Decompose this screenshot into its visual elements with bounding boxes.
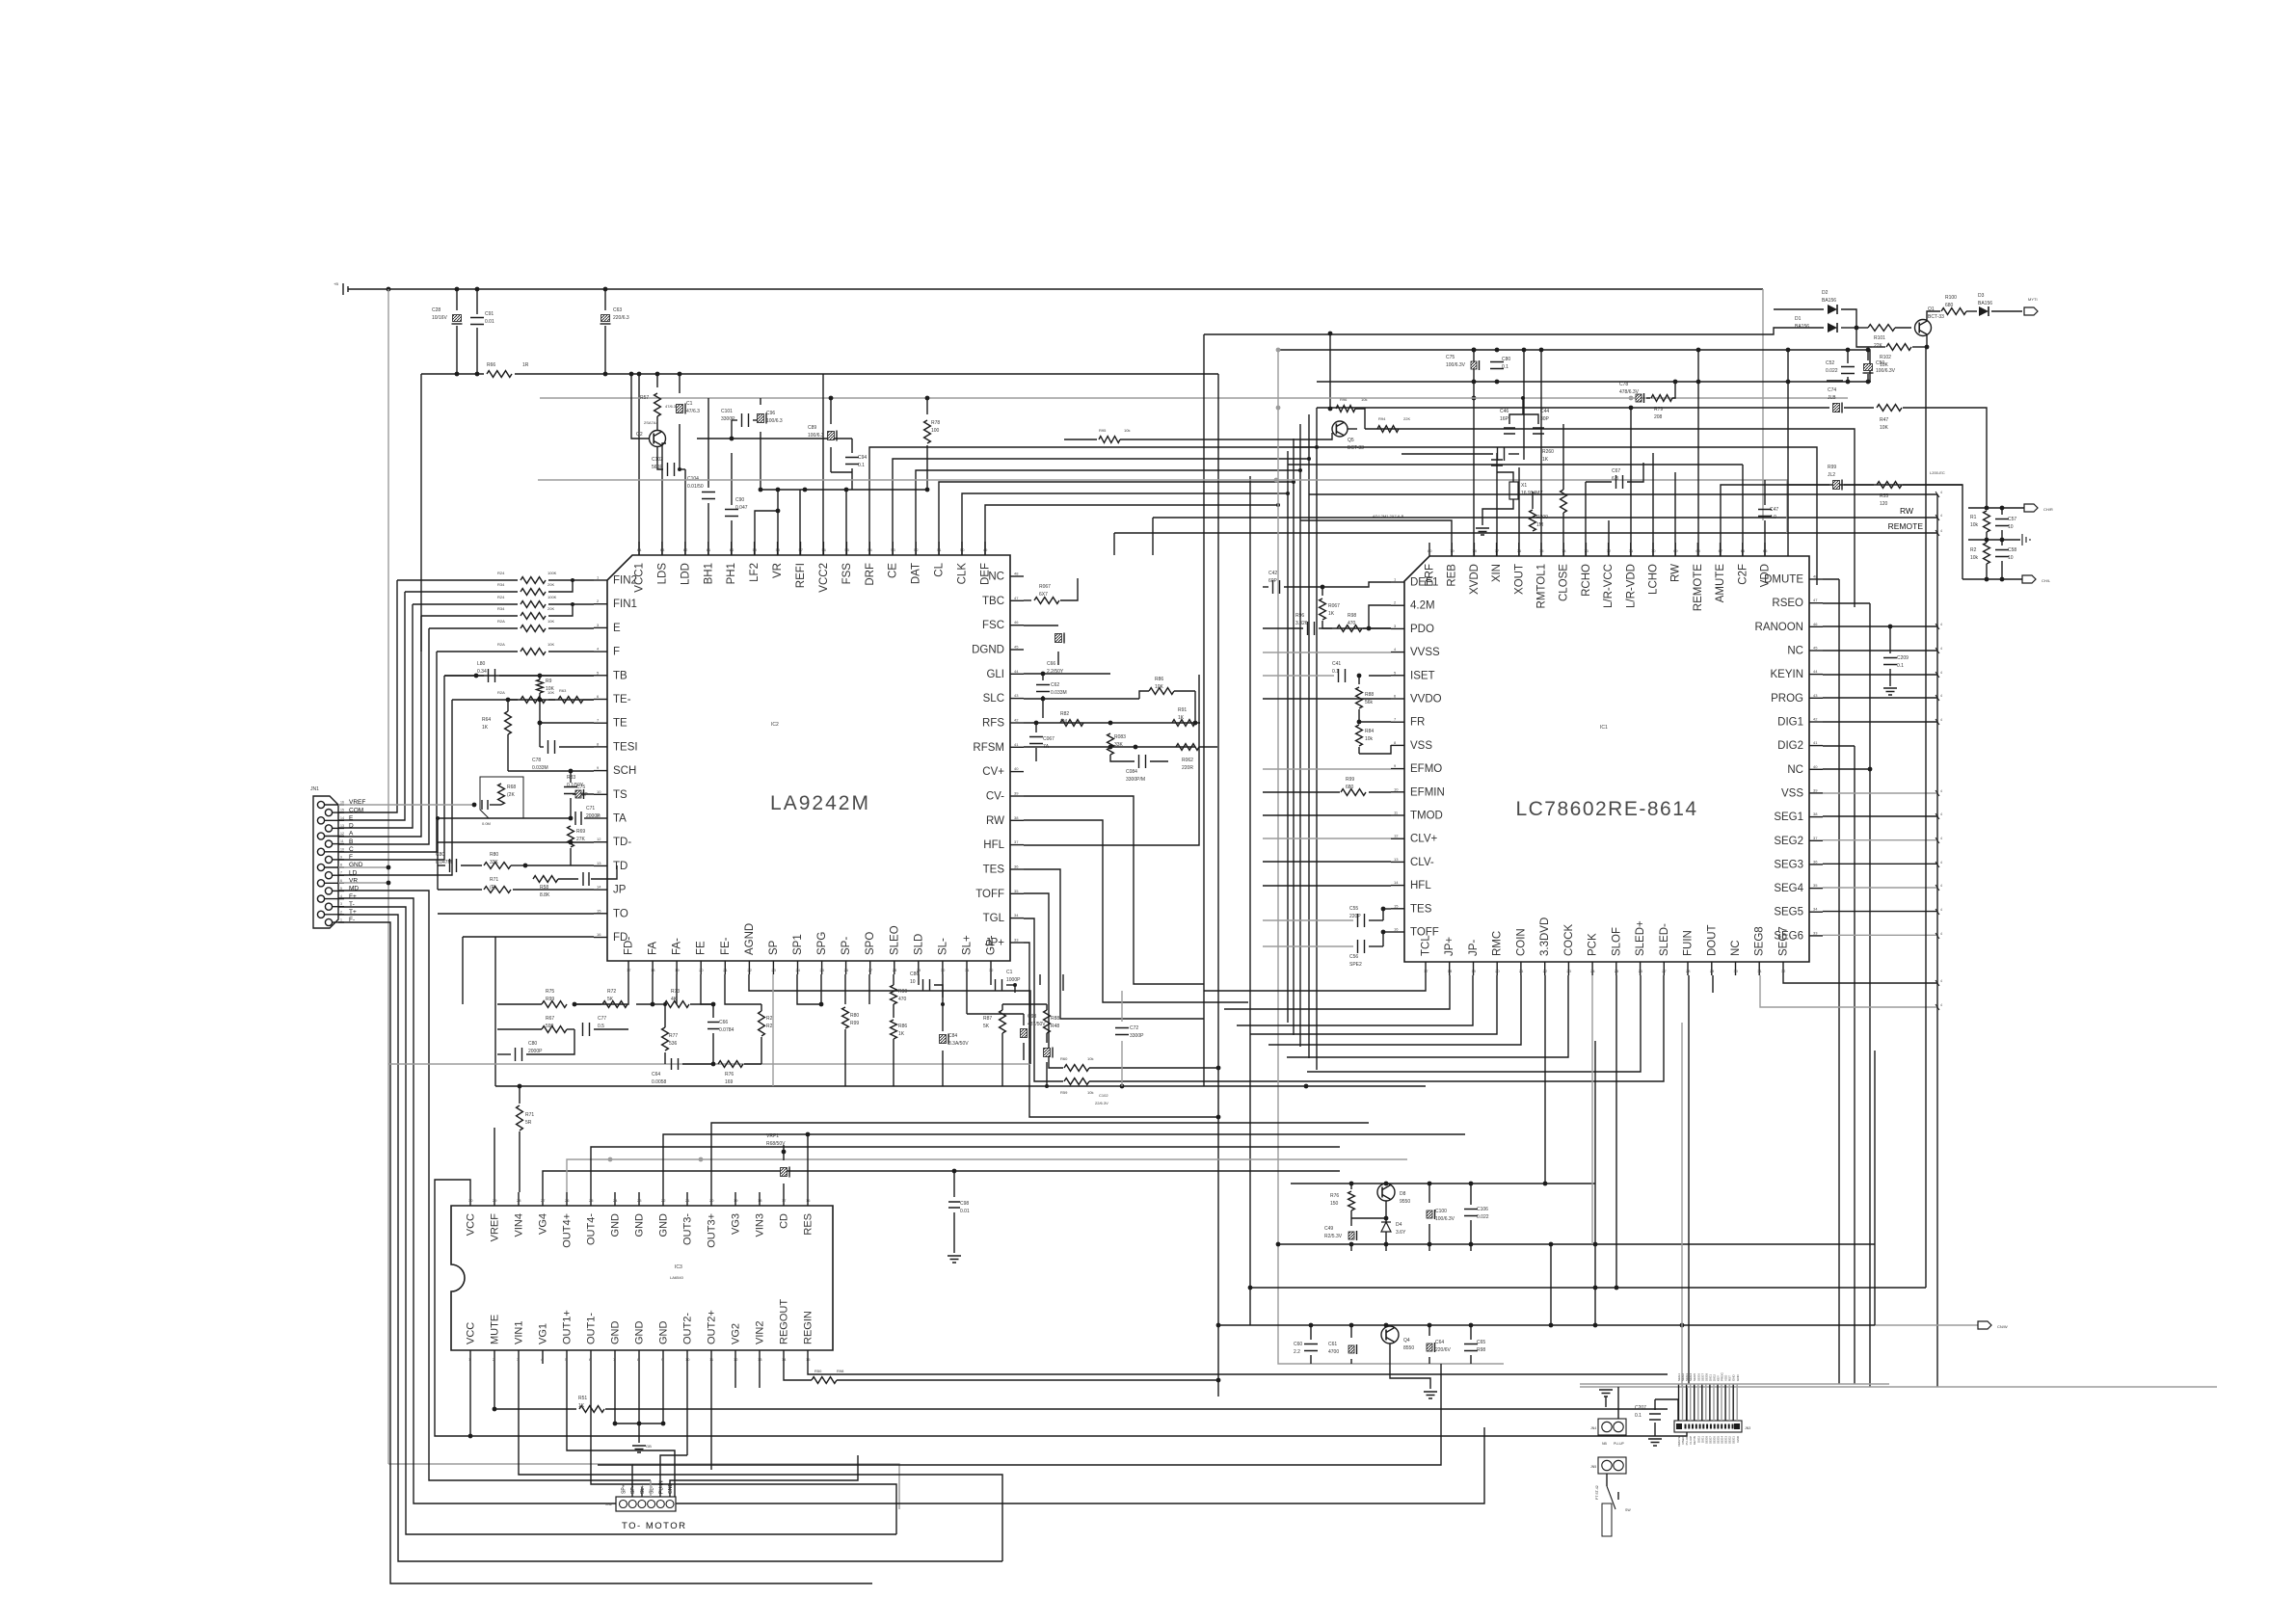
svg-text:LDD: LDD <box>680 563 691 585</box>
wire <box>444 675 594 677</box>
resistor R-tes <box>1064 1065 1089 1072</box>
resistor R73 <box>664 1001 689 1008</box>
wire RFSM <box>1024 746 1195 748</box>
svg-text:RW: RW <box>986 815 1004 827</box>
svg-text:BCT-33: BCT-33 <box>1928 314 1944 320</box>
svg-text:R200: R200 <box>1536 515 1548 520</box>
svg-text:0.01: 0.01 <box>960 1209 970 1214</box>
wire reg rail2 <box>1278 1243 1875 1245</box>
svg-text:40: 40 <box>1014 766 1019 771</box>
svg-text:32: 32 <box>1781 969 1786 973</box>
svg-text:21: 21 <box>723 968 728 972</box>
svg-text:JN1: JN1 <box>310 786 319 792</box>
svg-text:C98: C98 <box>960 1201 969 1207</box>
wire VCC1 up <box>638 374 640 555</box>
wire bus staircase <box>869 447 1317 555</box>
svg-text:BH1: BH1 <box>703 563 714 584</box>
svg-text:OUT1-: OUT1- <box>586 1313 598 1344</box>
svg-text:SL-: SL- <box>937 938 948 955</box>
wire REMOTE net <box>1114 532 1937 534</box>
svg-text:20K: 20K <box>547 606 554 611</box>
svg-text:24: 24 <box>795 968 800 972</box>
svg-text:4: 4 <box>1940 647 1942 651</box>
svg-text:R83: R83 <box>567 775 575 781</box>
svg-text:KEYIN: KEYIN <box>1770 669 1803 680</box>
wire mid bus <box>1316 408 1318 1070</box>
svg-text:18: 18 <box>1448 969 1453 973</box>
svg-text:BA156: BA156 <box>1978 301 1992 306</box>
wire RW net <box>1153 517 1937 519</box>
svg-text:RW: RW <box>1670 564 1682 582</box>
svg-text:FR: FR <box>1410 717 1425 729</box>
wire LRVCC up <box>1630 408 1632 556</box>
resistor R100 <box>1941 308 1966 315</box>
wire U3 stair 5 <box>711 1123 1369 1192</box>
wire FA down <box>636 974 653 1004</box>
junction <box>1472 396 1477 401</box>
wire hdr pin <box>1736 1384 1738 1421</box>
wire q3 row2 <box>1351 1217 1386 1219</box>
wire v1609 <box>1550 1244 1552 1325</box>
svg-text:SL+: SL+ <box>961 935 973 955</box>
svg-text:10: 10 <box>2008 524 2014 530</box>
svg-text:51: 51 <box>937 547 942 552</box>
wire <box>338 616 421 837</box>
svg-text:SLED+: SLED+ <box>1635 920 1646 956</box>
svg-text:OUT3+: OUT3+ <box>707 1213 718 1248</box>
svg-text:D8: D8 <box>1400 1191 1406 1197</box>
wire CLV- <box>1263 885 1391 887</box>
wire SCH row <box>508 770 594 772</box>
capacitor C209 <box>1889 626 1891 653</box>
wire HFL st <box>1024 869 1204 1019</box>
svg-text:GND: GND <box>1736 1374 1740 1382</box>
svg-text:R2A: R2A <box>497 642 505 647</box>
pin tick <box>1936 624 1939 629</box>
wire te- <box>539 676 541 679</box>
wire mid bus <box>1308 414 1310 1058</box>
svg-text:4: 4 <box>1940 1003 1942 1007</box>
svg-text:GND: GND <box>634 1321 646 1345</box>
svg-text:R260: R260 <box>1542 449 1554 455</box>
connector JN2 TO-MOTOR <box>605 1480 687 1531</box>
capacitor C89 electrolytic <box>830 398 832 424</box>
capacitor C-xvdd el <box>1471 361 1477 369</box>
svg-text:6.8: 6.8 <box>1612 476 1618 482</box>
capacitor C28 electrolytic <box>456 289 458 310</box>
svg-text:22K: 22K <box>1403 416 1410 421</box>
svg-text:47: 47 <box>1813 598 1818 602</box>
svg-text:TA: TA <box>613 813 627 825</box>
svg-text:33: 33 <box>1014 937 1019 942</box>
svg-text:R2A: R2A <box>497 690 505 695</box>
svg-text:10k: 10k <box>1124 428 1130 433</box>
wire SL+ down <box>1039 974 1041 985</box>
resistor R78 vert <box>926 398 928 414</box>
capacitor C50 elec <box>1864 364 1873 371</box>
junction gray <box>1274 478 1279 483</box>
svg-text:SP+: SP+ <box>622 1484 627 1494</box>
svg-text:60P: 60P <box>1268 578 1278 584</box>
svg-text:5K: 5K <box>607 997 614 1002</box>
svg-text:0.022: 0.022 <box>1826 368 1838 374</box>
svg-text:100: 100 <box>931 428 940 434</box>
svg-text:C56: C56 <box>1349 954 1358 960</box>
wire EFMIN <box>1263 814 1391 816</box>
svg-text:JN5: JN5 <box>1590 1465 1596 1469</box>
wire U3 vcc loop <box>435 1180 470 1436</box>
svg-text:R2: R2 <box>1970 547 1977 553</box>
svg-text:34: 34 <box>1014 913 1019 918</box>
svg-text:AGND: AGND <box>744 923 756 955</box>
svg-text:C58: C58 <box>2008 547 2016 553</box>
wire RSEO <box>1823 602 1870 604</box>
wire <box>338 652 437 852</box>
wire vert 1908 <box>1838 579 1840 1384</box>
svg-text:220R: 220R <box>1182 765 1193 771</box>
svg-text:10k: 10k <box>1970 555 1979 561</box>
pin tick <box>1936 672 1939 678</box>
svg-text:TBC: TBC <box>982 596 1004 607</box>
svg-text:28: 28 <box>517 1198 521 1203</box>
capacitor C-jl2 elec <box>1833 481 1840 490</box>
wire y445 band <box>1365 429 1855 607</box>
svg-text:TESI: TESI <box>613 741 638 753</box>
svg-text:FIN1: FIN1 <box>613 599 637 610</box>
transistor Q1 <box>1915 320 1932 336</box>
capacitor reg2 a <box>1310 1325 1312 1340</box>
svg-text:TD-: TD- <box>613 837 631 848</box>
wire TOFF st <box>1024 918 1063 1081</box>
svg-text:13: 13 <box>1394 857 1399 862</box>
svg-text:18: 18 <box>758 1198 762 1203</box>
svg-text:39: 39 <box>1014 790 1019 795</box>
svg-text:REMOTE: REMOTE <box>1693 564 1704 612</box>
svg-text:56k: 56k <box>1365 700 1374 705</box>
resistor <box>397 579 518 581</box>
wire hdr pin <box>1724 1384 1726 1421</box>
resistor R47 <box>1877 405 1902 412</box>
svg-text:10: 10 <box>597 789 601 794</box>
svg-text:R062: R062 <box>1182 758 1193 763</box>
resistor R87v <box>1000 1010 1006 1033</box>
svg-text:TO: TO <box>613 908 628 919</box>
svg-text:10K: 10K <box>547 619 554 624</box>
svg-text:57: 57 <box>799 547 804 552</box>
svg-text:14: 14 <box>1394 880 1399 885</box>
connector MYTI out <box>2024 307 2038 315</box>
svg-text:120: 120 <box>1880 501 1888 507</box>
svg-text:(2K: (2K <box>507 792 515 798</box>
svg-text:29: 29 <box>1710 969 1715 973</box>
svg-text:R1: R1 <box>1970 515 1977 520</box>
svg-text:SL+: SL+ <box>640 1485 646 1494</box>
svg-text:R86: R86 <box>898 1024 907 1029</box>
svg-text:10: 10 <box>910 979 916 985</box>
svg-text:1000P: 1000P <box>1006 977 1021 983</box>
wire T- long <box>338 907 896 1534</box>
svg-text:R76: R76 <box>725 1072 734 1078</box>
capacitor q3 out2 <box>1470 1184 1472 1205</box>
wire SP1 down <box>797 974 821 1004</box>
wire SP down gray <box>772 974 774 1086</box>
resistor R71 JP <box>484 887 511 893</box>
svg-text:470: 470 <box>898 997 907 1002</box>
svg-text:C52: C52 <box>1826 360 1834 366</box>
capacitor C64 <box>672 1058 679 1070</box>
svg-text:SEG8: SEG8 <box>1754 926 1766 956</box>
wire RCHO up <box>1608 520 1610 556</box>
op-amp U3 LA6540 motor driver IC <box>451 1192 833 1364</box>
wire MD long <box>338 891 651 1480</box>
resistor R76 <box>718 1061 743 1068</box>
svg-text:RFSM: RFSM <box>973 742 1004 754</box>
svg-text:IC2: IC2 <box>771 722 779 728</box>
svg-text:L80: L80 <box>477 661 486 667</box>
svg-text:23: 23 <box>771 968 776 972</box>
svg-text:GB: GB <box>646 1444 652 1449</box>
svg-text:SPG: SPG <box>816 932 828 955</box>
svg-text:R95: R95 <box>1099 428 1107 433</box>
resistor R70v <box>533 876 558 883</box>
svg-text:10/16V: 10/16V <box>432 315 448 321</box>
svg-text:LCHO: LCHO <box>1648 564 1660 595</box>
transistor Q4 <box>1381 1326 1399 1344</box>
svg-text:XVDD: XVDD <box>1469 564 1481 595</box>
wire VSS gray <box>1263 768 1391 770</box>
svg-text:VRP1: VRP1 <box>766 1133 779 1139</box>
svg-text:OUT4+: OUT4+ <box>562 1213 574 1248</box>
connector JN4 <box>1598 1419 1626 1435</box>
capacitor C94 <box>851 439 853 453</box>
svg-text:SPO: SPO <box>865 932 876 955</box>
svg-text:4: 4 <box>1940 671 1942 675</box>
svg-text:C60: C60 <box>1294 1342 1302 1347</box>
svg-text:DAT: DAT <box>911 563 922 584</box>
wire VVSS <box>1263 652 1391 653</box>
svg-text:18: 18 <box>651 968 655 972</box>
svg-text:20K: 20K <box>547 582 554 587</box>
svg-text:69: 69 <box>1673 548 1678 553</box>
diode zener D4 <box>1385 1218 1387 1222</box>
junction <box>1696 348 1701 353</box>
svg-text:D1: D1 <box>1795 316 1802 322</box>
svg-text:100K: 100K <box>547 595 557 599</box>
wire SEG3 <box>1823 863 1937 865</box>
wire tomotor 5 <box>660 1455 687 1497</box>
wire gray vert 1745 <box>1681 1023 1683 1388</box>
svg-text:FSC: FSC <box>982 620 1004 631</box>
junction <box>1349 1182 1354 1186</box>
svg-text:34: 34 <box>1813 907 1818 912</box>
junction g2 <box>1216 1323 1221 1328</box>
svg-text:RES: RES <box>803 1213 814 1236</box>
svg-text:4: 4 <box>1940 812 1942 816</box>
svg-text:C209: C209 <box>1897 655 1909 661</box>
ecap spo <box>940 1035 947 1044</box>
battery B+ terminal <box>343 283 359 295</box>
junction <box>1276 1242 1281 1247</box>
svg-text:47: 47 <box>1014 596 1019 600</box>
svg-text:16: 16 <box>1394 927 1399 932</box>
switch S1 <box>1606 1474 1608 1486</box>
svg-text:IC3: IC3 <box>675 1264 682 1270</box>
svg-text:35: 35 <box>1014 889 1019 893</box>
resistor <box>413 603 518 605</box>
svg-text:D4: D4 <box>1396 1222 1402 1228</box>
svg-text:R083: R083 <box>1114 734 1126 740</box>
svg-text:C207: C207 <box>1635 1405 1646 1411</box>
svg-text:220P: 220P <box>1349 914 1361 919</box>
svg-text:VREF: VREF <box>490 1213 501 1242</box>
svg-text:24: 24 <box>1590 969 1595 973</box>
resistor <box>405 591 518 593</box>
svg-text:30: 30 <box>468 1198 473 1203</box>
svg-text:SP-: SP- <box>630 1485 636 1494</box>
wire hdr pin <box>1690 1384 1692 1421</box>
svg-text:21: 21 <box>1519 969 1524 973</box>
svg-text:16.934MZ: 16.934MZ <box>1521 491 1543 496</box>
svg-text:RW: RW <box>1900 506 1913 516</box>
svg-text:C1: C1 <box>686 401 693 407</box>
svg-text:35: 35 <box>1813 883 1818 888</box>
wire RW up <box>1697 350 1699 556</box>
svg-text:15: 15 <box>340 809 344 812</box>
capacitor C66b <box>712 1004 714 1018</box>
svg-text:Q2: Q2 <box>636 432 643 438</box>
svg-text:R69: R69 <box>576 829 585 835</box>
svg-text:REGIN: REGIN <box>803 1311 814 1344</box>
svg-text:C2F: C2F <box>1737 564 1749 585</box>
capacitor C-fd row3 <box>497 1053 511 1055</box>
svg-text:C72: C72 <box>1130 1025 1138 1031</box>
wire hdr pin <box>1717 1384 1719 1421</box>
svg-text:9: 9 <box>340 855 342 859</box>
svg-text:GND: GND <box>668 1483 674 1495</box>
crystal X1 <box>1496 453 1498 556</box>
wire SLEO down <box>942 974 944 1018</box>
resistor R77v <box>662 1027 669 1051</box>
capacitor C72 big <box>1121 991 1123 1022</box>
svg-text:NC: NC <box>1787 645 1803 656</box>
svg-text:L200-EC: L200-EC <box>1930 470 1945 475</box>
svg-text:JLB: JLB <box>1828 395 1836 401</box>
wire CV- st <box>1024 820 1248 1002</box>
resistor R93 <box>1176 744 1199 751</box>
svg-text:R2/5.3V: R2/5.3V <box>1324 1234 1343 1239</box>
svg-text:C67: C67 <box>1612 468 1620 474</box>
wire SEG8 row gray <box>1760 975 1937 1007</box>
resistor R60 v <box>537 679 544 693</box>
wire Q1 collector <box>1927 311 1940 321</box>
wire y464 band <box>1294 447 1817 585</box>
svg-text:3.6Y: 3.6Y <box>1396 1230 1406 1236</box>
transistor Q2 <box>656 416 658 430</box>
svg-text:1K: 1K <box>1542 457 1549 463</box>
svg-text:6X7: 6X7 <box>1039 592 1048 598</box>
resistor R69 v <box>568 826 574 847</box>
svg-text:SLC: SLC <box>983 693 1004 705</box>
wire VIN2 down <box>759 1364 761 1388</box>
wire jp2 up <box>1617 1387 1619 1419</box>
svg-text:R60: R60 <box>1060 1056 1068 1061</box>
wire reg rail1 <box>1291 1183 1595 1184</box>
svg-text:Q5: Q5 <box>1348 438 1354 443</box>
svg-text:SP-: SP- <box>841 937 852 955</box>
diode D2 <box>1774 308 1824 310</box>
wire LDS up <box>662 443 666 555</box>
svg-text:VR: VR <box>772 563 784 578</box>
capacitor C84 <box>1139 755 1146 768</box>
svg-text:R80: R80 <box>850 1013 859 1019</box>
wire NC4 <box>1823 650 1937 652</box>
resistor R102 <box>1872 346 1885 348</box>
pin tick <box>1936 862 1939 867</box>
svg-text:37: 37 <box>1014 839 1019 844</box>
wire bus staircase <box>893 459 1309 555</box>
wire reg2 rail <box>1218 1324 1875 1326</box>
svg-text:SW: SW <box>1625 1508 1631 1512</box>
svg-text:D2: D2 <box>1822 290 1829 296</box>
svg-text:15: 15 <box>1394 903 1399 908</box>
svg-text:4.0: 4.0 <box>1770 515 1776 520</box>
svg-text:DIG1: DIG1 <box>1777 716 1803 728</box>
pin tick <box>1936 1004 1939 1010</box>
svg-text:0.1: 0.1 <box>858 463 865 468</box>
transistor Q5 <box>1329 333 1331 409</box>
svg-text:GP-: GP- <box>986 935 998 955</box>
svg-text:0.033M: 0.033M <box>532 765 548 771</box>
svg-text:BCT-33: BCT-33 <box>1348 445 1364 451</box>
wire hdr pin <box>1694 1384 1695 1421</box>
capacitor C-xvdd2 <box>1490 362 1504 369</box>
svg-text:4: 4 <box>1940 837 1942 840</box>
wire TO row <box>438 913 594 915</box>
svg-text:0.01: 0.01 <box>485 319 494 325</box>
connector out R <box>2024 504 2038 512</box>
wire GND stub <box>338 866 388 868</box>
svg-text:L/R-VDD: L/R-VDD <box>1625 564 1637 608</box>
svg-text:R68: R68 <box>507 785 516 790</box>
svg-text:13: 13 <box>340 824 344 828</box>
svg-text:GND: GND <box>658 1321 670 1345</box>
svg-text:10k: 10k <box>1087 1090 1093 1095</box>
svg-text:XIN: XIN <box>1491 564 1503 582</box>
wire y513 band <box>1309 493 1937 495</box>
svg-text:16: 16 <box>597 932 601 937</box>
wire TE row <box>540 722 594 724</box>
svg-text:JN4: JN4 <box>1590 1426 1596 1430</box>
svg-text:48: 48 <box>1014 572 1019 576</box>
svg-text:14: 14 <box>782 1357 787 1362</box>
wire U3 stair 4 <box>663 1134 1465 1192</box>
svg-text:SLD: SLD <box>913 934 924 955</box>
wire SEG5 <box>1823 911 1937 913</box>
wire VR col <box>777 511 779 555</box>
svg-text:55: 55 <box>844 547 849 552</box>
wire F+ long <box>338 898 1484 1503</box>
capacitor C105 electrolytic <box>679 374 681 393</box>
svg-text:16: 16 <box>806 1198 811 1203</box>
svg-text:VIN3: VIN3 <box>755 1213 766 1237</box>
svg-text:1K: 1K <box>578 1403 585 1409</box>
pin tick <box>1936 695 1939 701</box>
svg-text:37: 37 <box>1813 836 1818 840</box>
svg-text:IC1: IC1 <box>1600 725 1608 731</box>
svg-text:C94: C94 <box>858 455 867 461</box>
svg-text:23: 23 <box>637 1198 642 1203</box>
wire tomotor 4 <box>650 1480 652 1497</box>
